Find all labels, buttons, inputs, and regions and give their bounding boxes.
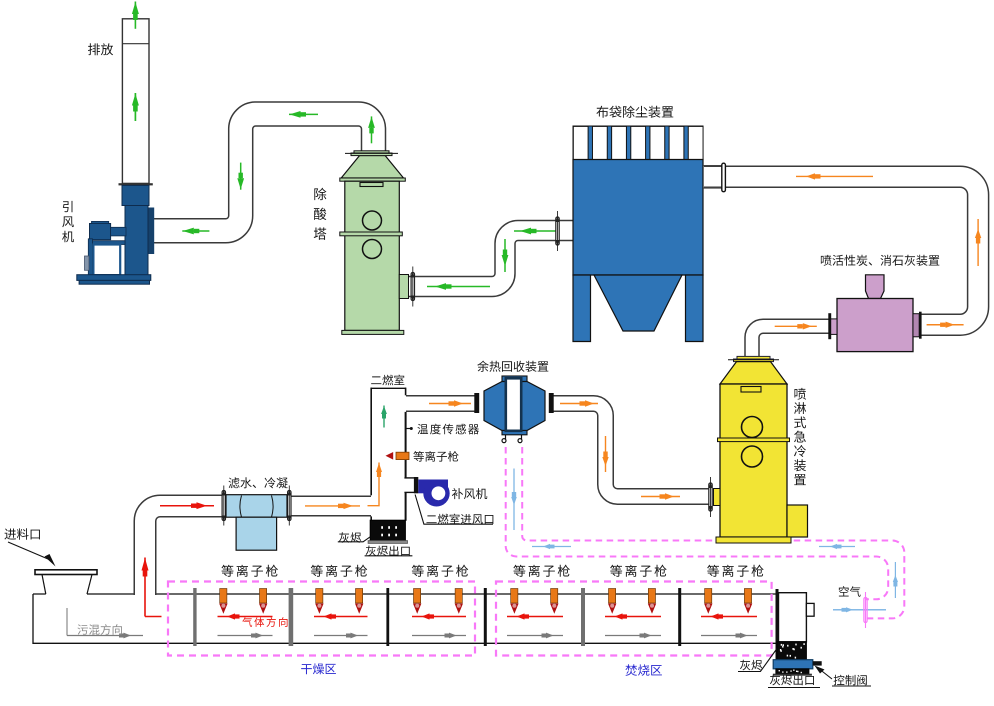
- feed neck left: [42, 575, 46, 595]
- label 二燃室进风口: [426, 514, 493, 525]
- bag filter comb white cell 6: [669, 126, 684, 159]
- label 排放: [88, 43, 113, 55]
- label 空气: [839, 586, 861, 597]
- label 焚烧区 (blue): [625, 664, 662, 676]
- label 进料口: [4, 528, 39, 539]
- orange flow arrow into loop from injector (pointing right): [927, 322, 964, 328]
- orange flow arrow quench->injector (pointing right): [775, 323, 817, 329]
- fan left tab: [85, 256, 90, 270]
- red gas-direction arrow section 2 (pointing left): [314, 613, 368, 619]
- label 灰烬 (left): [339, 532, 361, 543]
- bag filter left leg: [573, 275, 591, 342]
- fan motor: [90, 224, 111, 240]
- quench sight glass lower: [742, 446, 763, 467]
- acid tower bottom flange: [342, 330, 404, 334]
- pipe: kiln riser to water-filter: [145, 506, 224, 595]
- underline + leader for left 灰烬: [338, 537, 370, 542]
- label 补风机: [452, 488, 487, 499]
- fan motor cap: [92, 221, 109, 223]
- air inlet flow arrow (pointing right): [833, 607, 886, 612]
- air duct dashed boundary B (right vertical + top horizontal + outer corner to inlet): [522, 447, 904, 618]
- pipe: water-filter to secondary chamber: [288, 496, 371, 517]
- drying zone dashed box 干燥区: [168, 582, 475, 656]
- green flow arrow inside stack (up): [132, 93, 139, 121]
- label 滤水、冷凝: [229, 477, 288, 488]
- green flow arrow in acid tower outlet stub (pointing up): [368, 116, 375, 143]
- acid tower sight glass lower: [363, 240, 382, 259]
- acid tower divider band: [340, 232, 403, 236]
- heat-recovery drain hook left: [505, 435, 507, 439]
- injector left flange: [828, 313, 831, 339]
- gray sludge-direction arrow section 6 (pointing right): [701, 633, 757, 639]
- gray sludge direction leader: [66, 608, 68, 636]
- green flow arrow above stack (up, exhaust): [132, 2, 139, 29]
- temperature sensor 温度传感器 icon: [406, 428, 411, 430]
- stack joint line: [122, 43, 149, 45]
- air inlet pink flange lens: [864, 598, 867, 623]
- orange flow arrow heat-recovery->right (pointing right): [560, 400, 598, 406]
- gray sludge-direction arrow section 2 (pointing right): [314, 633, 368, 639]
- quench sight glass upper: [742, 417, 763, 438]
- underline for right 灰烬出口: [768, 687, 820, 689]
- bag filter right outlet stub: [703, 165, 722, 167]
- plasma gun 1 等离子枪 icon: [220, 589, 227, 604]
- acid tower inlet stub: [399, 275, 408, 299]
- pipe: quench tower top to carbon/lime injector: [752, 326, 829, 357]
- injector right flange: [919, 312, 922, 339]
- red flow arrow into water-filter pipe (pointing right): [160, 502, 214, 509]
- fan outlet box: [122, 185, 149, 205]
- plasma gun 6 等离子枪 icon: [455, 589, 462, 604]
- label 温度传感器: [417, 424, 479, 435]
- pipe: secondary chamber to heat-recovery: [406, 395, 476, 412]
- green flow arrow vertical run (pointing down): [237, 163, 244, 190]
- red gas-direction arrow section 1 (pointing left): [218, 613, 273, 619]
- acid tower top cone: [341, 156, 403, 179]
- gray sludge-direction arrow section 3 (pointing right): [412, 633, 466, 639]
- quench top flange bar2: [734, 359, 774, 362]
- plasma gun 3 等离子枪 icon: [316, 589, 323, 604]
- label 二燃室: [371, 375, 404, 386]
- plasma gun on chamber 等离子枪 icon: [396, 452, 409, 459]
- bag filter comb white cell 3: [612, 126, 627, 159]
- control valve body (blue): [773, 660, 813, 669]
- fan frame top bar: [93, 241, 126, 245]
- fan shaft: [111, 227, 126, 236]
- kiln right end wall (thick): [776, 589, 779, 672]
- quench left stub: [714, 489, 721, 506]
- quench tower body: [720, 384, 787, 537]
- quench top flange bar1: [737, 356, 770, 359]
- flange lens at bag filter right stub: [722, 163, 726, 192]
- bag filter comb white cell 2: [592, 126, 607, 159]
- flange at water-filter right: [288, 486, 291, 526]
- label 等离子枪 kiln section 3: [412, 565, 469, 577]
- underline for left 灰烬出口: [365, 555, 413, 557]
- orange flow arrow heat-recovery->quench horizontal (pointing right): [641, 493, 680, 499]
- stack 排放 chimney: [122, 19, 149, 184]
- plasma gun 11 等离子枪 icon: [705, 589, 712, 604]
- red flow arrow in riser (up): [142, 558, 149, 617]
- quench bottom flange: [716, 537, 791, 543]
- fan inlet flange (right): [149, 208, 155, 255]
- injector body: [837, 299, 913, 352]
- label 喷淋式急冷装置 (vertical): [794, 388, 806, 485]
- incineration zone dashed box 焚烧区: [496, 582, 772, 656]
- injector right stub: [913, 314, 919, 337]
- feed neck right: [87, 575, 92, 595]
- chamber right wall upper: [405, 388, 407, 396]
- chamber ash box base: [368, 541, 407, 544]
- label 布袋除尘装置: [596, 106, 673, 118]
- kiln divider 3 (black): [386, 588, 389, 646]
- plasma gun 4 等离子枪 icon: [356, 589, 363, 604]
- green flow arrow in fan outlet pipe (pointing left into fan): [182, 228, 209, 235]
- green flow arrow (upper run, pointing left): [514, 228, 556, 235]
- injector left stub: [831, 319, 838, 335]
- label 控制阀: [834, 675, 867, 686]
- stack bottom flange: [119, 183, 153, 185]
- acid tower sight glass upper: [363, 211, 382, 230]
- gray sludge arrow at kiln head (pointing right): [67, 633, 143, 639]
- label 喷活性炭、消石灰装置: [821, 255, 939, 266]
- heat-recovery bottom cap: [502, 431, 527, 435]
- injector top hopper: [866, 275, 885, 299]
- gray sludge-direction arrow section 4 (pointing right): [507, 633, 563, 639]
- heat-recovery drain hook right: [521, 435, 523, 439]
- acid tower body: [345, 181, 400, 330]
- quench tower cone: [720, 362, 787, 384]
- label 灰烬 (right): [740, 660, 762, 671]
- bag filter comb base: [573, 126, 703, 160]
- supplement fan duct: [418, 480, 448, 494]
- chamber fan-notch bottom: [404, 491, 418, 493]
- leader arrow for 进料口: [8, 542, 48, 559]
- label 除酸塔 (vertical): [314, 188, 327, 240]
- red gas-direction arrow section 5 (pointing left): [605, 613, 661, 619]
- green flow arrow top run (pointing left): [289, 111, 318, 118]
- underline + leader arrow for 控制阀: [818, 668, 871, 686]
- plasma gun 12 等离子枪 icon: [744, 589, 751, 604]
- kiln divider 5 (gray): [581, 588, 585, 646]
- label 干燥区 (blue): [301, 663, 336, 674]
- valve base plate: [773, 674, 812, 676]
- flange at quench tower left inlet: [709, 477, 712, 517]
- fan base plate: [77, 275, 151, 281]
- orange flow arrow heat-recovery->quench vertical (pointing down): [602, 436, 608, 472]
- acid tower top flange bar1: [354, 151, 389, 153]
- gray sludge-direction arrow section 5 (pointing right): [605, 633, 661, 639]
- air flow arrow (vertical duct under heat-recovery, pointing down): [511, 469, 517, 531]
- quench right foot block: [787, 505, 808, 537]
- fan housing body: [125, 206, 148, 277]
- pipe: bag filter to acid tower S-bend: [408, 231, 574, 287]
- underline + leader for right 灰烬: [738, 649, 777, 672]
- green flow arrow (lower run, pointing left): [427, 283, 490, 290]
- acid tower top flange side ticks: [345, 152, 398, 154]
- heat-recovery right flange: [549, 393, 554, 413]
- label 气体方向 (red): [242, 617, 287, 627]
- label 等离子枪 kiln section 6: [707, 565, 764, 577]
- chamber left wall upper: [370, 388, 372, 496]
- heat-recovery top cap: [502, 376, 527, 382]
- label 余热回收装置: [477, 361, 548, 372]
- acid tower hatch: [360, 183, 383, 187]
- orange flow arrow water-filter->chamber (pointing right): [305, 503, 360, 509]
- pipe: induced-draft fan outlet S-bend to acid tower top: [152, 114, 374, 231]
- kiln end chamber box: [779, 593, 807, 642]
- label 等离子枪 kiln section 1: [221, 565, 278, 577]
- heat-recovery inner white slot: [506, 378, 521, 431]
- underline + leader for 二燃室进风口: [415, 495, 493, 525]
- air flow arrow (vertical duct near air inlet, pointing up): [893, 562, 898, 598]
- chamber right wall lower: [405, 492, 407, 520]
- label 等离子枪 kiln section 2: [311, 565, 368, 577]
- label 污混方向 (gray): [77, 624, 121, 635]
- kiln divider 6 (black): [678, 588, 681, 646]
- rotary kiln body: [33, 594, 776, 643]
- pipe: heat-recovery to quench tower: [552, 404, 709, 497]
- orange flow path inside chamber: [368, 484, 380, 506]
- bag filter hopper: [594, 275, 682, 331]
- air inlet light blue pipe line: [833, 609, 886, 611]
- air flow arrow (duct, left segment, pointing left): [532, 544, 571, 549]
- acid tower collar: [340, 178, 406, 181]
- orange flow arrow chamber->heat-recovery (pointing right): [429, 400, 471, 406]
- chamber left wall lower: [370, 516, 372, 520]
- chamber fan-notch top: [404, 477, 414, 479]
- quench hatch: [741, 387, 761, 393]
- label 等离子枪 kiln section 4: [513, 565, 570, 577]
- bag filter comb white cell 1: [573, 126, 588, 159]
- fan base lower: [79, 280, 149, 284]
- chamber ash box: [370, 520, 405, 541]
- gray sludge-direction arrow section 1 (pointing right): [218, 633, 273, 639]
- kiln divider 4 (black): [484, 588, 487, 646]
- bag filter comb white cell 4: [631, 126, 646, 159]
- kiln divider 1 (gray): [193, 588, 196, 646]
- plasma gun 7 等离子枪 icon: [511, 589, 518, 604]
- acid tower top flange bar2: [351, 153, 392, 156]
- quench top flange side ticks: [728, 359, 779, 361]
- label 等离子枪 kiln section 5: [610, 565, 667, 577]
- orange flow arrow inside chamber (up): [376, 463, 382, 485]
- air flow arrow (duct, right segment, pointing left): [819, 544, 855, 549]
- red gas-direction arrow section 4 (pointing left): [507, 613, 563, 619]
- fan support column: [88, 239, 92, 276]
- bag filter comb white cell 5: [650, 126, 665, 159]
- flange at acid tower inlet: [411, 267, 414, 307]
- bag filter right leg: [686, 275, 704, 342]
- plasma gun 5 等离子枪 icon: [414, 589, 421, 604]
- pipe: bag filter right to carbon/lime injector (big loop): [704, 177, 978, 325]
- red gas-direction arrow section 6 (pointing left): [701, 613, 757, 619]
- ash pit block: [777, 642, 806, 660]
- valve base block: [776, 669, 809, 674]
- plasma gun 9 等离子枪 icon: [609, 589, 616, 604]
- control valve stem: [813, 661, 822, 665]
- plasma gun 8 等离子枪 icon: [551, 589, 558, 604]
- green flow arrow (down run, pointing down): [502, 239, 509, 272]
- label 灰烬出口 (left): [366, 546, 410, 557]
- quench divider band: [718, 438, 790, 442]
- feed inlet flange bar: [35, 570, 97, 575]
- teal flow arrow inside chamber (up): [381, 406, 387, 428]
- chamber top wall: [371, 387, 406, 389]
- flange at bag filter left stub: [556, 211, 559, 251]
- red gas-direction arrow section 3 (pointing left): [412, 613, 466, 619]
- label 灰烬出口 (right): [770, 675, 814, 686]
- bag filter main body: [573, 160, 703, 276]
- water-filter tank: [236, 517, 277, 550]
- supplement fan inlet flange: [414, 477, 418, 493]
- bag filter comb white cell 7: [688, 126, 703, 159]
- label 引风机 (vertical): [62, 201, 74, 242]
- water-filter pipe body: [226, 495, 287, 518]
- red flow foot at kiln: [145, 616, 162, 618]
- flange at water-filter left: [222, 486, 225, 526]
- orange flow arrow top loop (pointing left toward bag filter): [796, 173, 873, 179]
- kiln divider 2 (gray): [289, 588, 294, 646]
- plasma gun 10 等离子枪 icon: [648, 589, 655, 604]
- orange flow arrow right loop (pointing up): [975, 219, 981, 266]
- label 等离子枪 (chamber): [413, 451, 458, 462]
- air duct dashed boundary A (left vertical + bottom-inner horizontal + down to inlet): [506, 447, 889, 599]
- water-filter inner curves: [240, 496, 273, 518]
- fan frame box: [93, 245, 120, 276]
- heat-recovery octagon body: [484, 382, 545, 431]
- kiln end chamber stub: [806, 603, 814, 616]
- chamber right wall mid: [405, 412, 407, 478]
- plasma gun 2 等离子枪 icon: [260, 589, 267, 604]
- heat-recovery left flange: [474, 393, 479, 413]
